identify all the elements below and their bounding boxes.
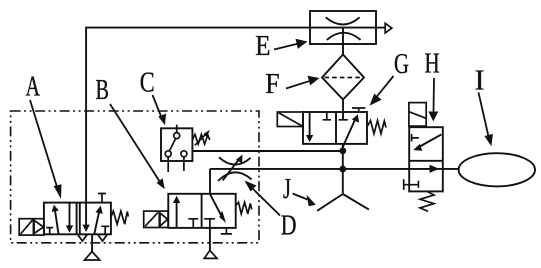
svg-text:E: E	[255, 30, 270, 62]
svg-text:A: A	[26, 71, 41, 102]
svg-text:G: G	[394, 49, 409, 80]
svg-text:I: I	[475, 65, 485, 96]
svg-text:H: H	[425, 49, 440, 80]
svg-text:B: B	[96, 75, 109, 106]
svg-text:F: F	[265, 68, 279, 99]
svg-text:J: J	[283, 174, 291, 205]
svg-text:D: D	[281, 211, 297, 241]
svg-text:C: C	[140, 67, 155, 98]
